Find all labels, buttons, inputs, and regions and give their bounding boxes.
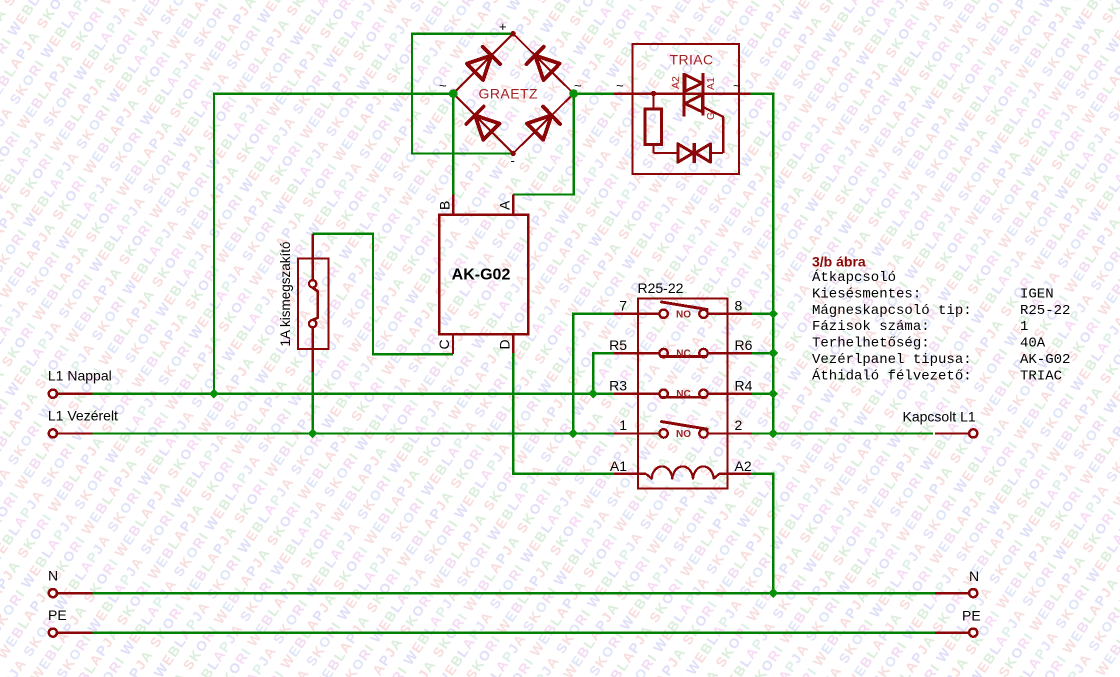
pin C stub: [452, 334, 454, 354]
svg-text:NO: NO: [676, 429, 691, 440]
wire pin 8 stub link: [752, 313, 773, 315]
wire bridge right node to TRIAC: [574, 92, 614, 94]
circuit breaker F1 1A kismegszakito: [298, 234, 328, 372]
wire to Kapcsolt L1: [773, 432, 933, 434]
wire bridge left node down to pin B: [452, 94, 454, 195]
svg-text:1: 1: [1020, 319, 1028, 335]
node TRIAC gate branch: [651, 91, 656, 96]
svg-text:40A: 40A: [1020, 336, 1046, 352]
svg-text:Mágneskapcsoló tip:: Mágneskapcsoló tip:: [812, 303, 972, 319]
relay contact R3-R4: [614, 389, 752, 400]
pin A stub: [512, 194, 514, 214]
svg-text:8: 8: [735, 298, 743, 314]
svg-text:1: 1: [619, 417, 627, 433]
diac D5: [654, 143, 724, 163]
terminal Kapcsolt L1: [935, 429, 977, 437]
svg-text:3/b ábra: 3/b ábra: [812, 253, 866, 269]
wire right riser to relay contacts: [772, 94, 774, 434]
svg-text:Vezérlpanel tipusa:: Vezérlpanel tipusa:: [812, 352, 972, 368]
svg-text:~: ~: [574, 78, 582, 93]
wire TRIAC internal A2-A1: [614, 92, 751, 94]
relay contact R5-R6: [614, 349, 752, 360]
svg-text:TRIAC: TRIAC: [670, 52, 714, 68]
triac Q1: [684, 73, 703, 116]
svg-text:R5: R5: [609, 337, 627, 353]
wire triac gate: [704, 108, 723, 154]
wire breaker top to pin C: [313, 234, 453, 354]
junction pin 2: [768, 429, 778, 439]
node bridge plus: [510, 31, 515, 36]
wire L1 Vezerelt bus: [93, 432, 614, 434]
relay K1 R25-22 box: [638, 299, 728, 489]
diode D2 top-right: [535, 56, 560, 81]
svg-text:R25-22: R25-22: [1020, 303, 1070, 319]
svg-text:~: ~: [439, 78, 447, 93]
svg-text:~: ~: [616, 78, 624, 93]
svg-text:L1 Vezérelt: L1 Vezérelt: [48, 407, 118, 423]
junction bridge left AC node: [449, 89, 458, 98]
svg-text:PE: PE: [48, 607, 67, 623]
resistor R gate: [645, 94, 661, 153]
wire N bus: [93, 592, 936, 594]
svg-text:A: A: [496, 200, 512, 210]
junction pin R6: [768, 348, 778, 358]
svg-text:TRIAC: TRIAC: [1020, 368, 1062, 384]
svg-text:2: 2: [735, 417, 743, 433]
svg-text:L1 Nappal: L1 Nappal: [48, 368, 112, 384]
wire TRIAC right out: [751, 92, 775, 94]
svg-text:A2: A2: [670, 76, 682, 89]
junction pin 8: [768, 309, 778, 319]
svg-text:A2: A2: [735, 458, 752, 474]
terminal L1 Vezerelt: [49, 429, 93, 437]
svg-text:-: -: [511, 153, 515, 168]
svg-text:7: 7: [619, 298, 627, 314]
svg-text:IGEN: IGEN: [1020, 286, 1054, 302]
terminal N right: [935, 589, 977, 597]
svg-text:R6: R6: [735, 337, 753, 353]
wire PE bus: [93, 631, 936, 633]
wire L1 Nappal bus: [93, 393, 614, 395]
junction pinR5 link / L1 Nappal: [588, 389, 598, 399]
wire bridge + to - loop: [412, 34, 513, 154]
wire pin D to coil A1: [513, 353, 614, 474]
terminal PE left: [49, 629, 93, 637]
svg-text:G: G: [705, 112, 717, 120]
rectifier bridge GRAETZ outline: [453, 34, 573, 154]
svg-text:Kapcsolt L1: Kapcsolt L1: [903, 409, 976, 425]
TRIAC module box: [633, 44, 739, 174]
svg-text:Fázisok száma:: Fázisok száma:: [812, 319, 930, 335]
svg-text:AK-G02: AK-G02: [452, 267, 511, 284]
svg-text:GRAETZ: GRAETZ: [479, 86, 538, 102]
diode D1 top-left: [467, 55, 492, 80]
wire pin 2 stub link: [752, 432, 773, 434]
wire top horizontal to bridge left node: [213, 92, 453, 94]
svg-text:C: C: [436, 339, 452, 349]
node bridge minus: [510, 151, 515, 156]
svg-text:NC: NC: [676, 389, 690, 400]
wire left riser: [213, 94, 215, 395]
control panel U1 AK-G02 box: [439, 215, 528, 335]
relay coil A1-A2: [614, 466, 751, 478]
wire bridge right node to pin A: [513, 94, 574, 195]
wire pin 7 to L1 Vezerelt: [573, 314, 614, 434]
diode D3 bottom-left: [475, 115, 500, 140]
wire pin R6 stub link: [752, 352, 773, 354]
svg-text:1A kismegszakító: 1A kismegszakító: [278, 241, 293, 346]
junction breaker / L1 Vezerelt: [308, 429, 318, 439]
svg-text:R4: R4: [735, 378, 753, 394]
svg-text:A1: A1: [705, 77, 717, 90]
svg-text:+: +: [499, 19, 507, 34]
terminal PE right: [935, 629, 977, 637]
diode D4 bottom-right: [527, 115, 552, 140]
pin B stub: [452, 195, 454, 215]
svg-text:R25-22: R25-22: [638, 280, 684, 296]
junction pin7 link / L1 Vezerelt: [568, 429, 578, 439]
junction A2 / N bus: [768, 588, 778, 598]
svg-text:Áthidaló félvezető:: Áthidaló félvezető:: [812, 366, 972, 384]
terminal N left: [49, 589, 93, 597]
svg-text:R3: R3: [609, 378, 627, 394]
junction bridge right AC node: [569, 89, 578, 98]
svg-text:N: N: [969, 568, 979, 584]
svg-text:Átkapcsoló: Átkapcsoló: [812, 268, 896, 286]
svg-text:D: D: [496, 339, 512, 349]
svg-text:A1: A1: [610, 458, 627, 474]
svg-text:~: ~: [733, 78, 741, 93]
relay contact 1-2: [614, 422, 752, 440]
wire coil A2 to N: [751, 474, 773, 593]
wire pin R5 to L1 Nappal: [593, 353, 614, 394]
pin D stub: [512, 334, 514, 353]
svg-text:AK-G02: AK-G02: [1020, 352, 1070, 368]
junction pin R4: [768, 389, 778, 399]
svg-text:B: B: [437, 201, 453, 210]
wire breaker bottom to L1 Vezerelt: [312, 372, 314, 433]
svg-text:N: N: [48, 568, 58, 584]
svg-text:Terhelhetőség:: Terhelhetőség:: [812, 336, 930, 352]
svg-text:NC: NC: [676, 349, 690, 360]
relay contact 7-8: [614, 302, 752, 320]
terminal L1 Nappal: [49, 390, 93, 398]
svg-text:NO: NO: [676, 309, 691, 320]
junction left riser / L1 Nappal: [209, 389, 219, 399]
wire pin R4 stub link: [752, 393, 773, 395]
svg-text:PE: PE: [962, 608, 981, 624]
svg-text:Kiesésmentes:: Kiesésmentes:: [812, 286, 921, 302]
